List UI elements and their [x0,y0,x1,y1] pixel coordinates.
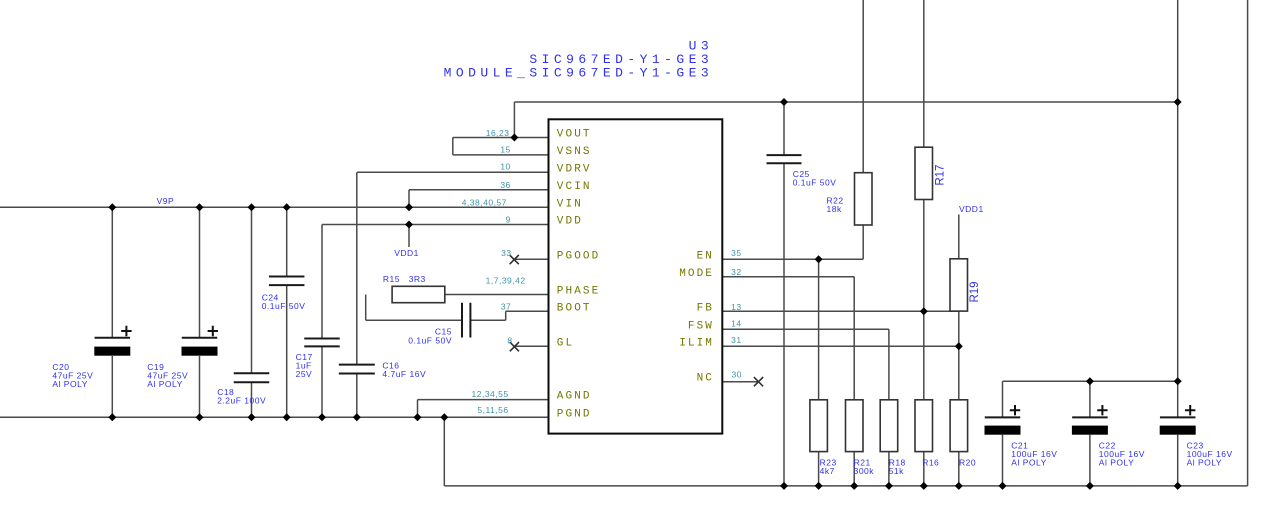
svg-text:8: 8 [507,336,512,346]
svg-text:R15: R15 [383,274,400,284]
svg-text:VDRV: VDRV [557,163,592,175]
svg-text:30: 30 [732,370,742,380]
svg-text:14: 14 [731,318,741,328]
svg-text:VDD1: VDD1 [959,204,984,214]
svg-text:VCIN: VCIN [557,181,592,193]
svg-text:FB: FB [697,302,714,314]
svg-text:300k: 300k [854,466,875,476]
svg-text:0.1uF 50V: 0.1uF 50V [262,301,306,311]
svg-text:18k: 18k [827,204,842,214]
svg-text:16,23: 16,23 [486,128,510,138]
svg-text:BOOT: BOOT [557,302,592,314]
svg-text:32: 32 [731,267,741,277]
svg-text:R20: R20 [959,458,976,468]
svg-text:4k7: 4k7 [820,466,835,476]
svg-text:13: 13 [731,302,741,312]
svg-text:GL: GL [557,337,574,349]
svg-text:NC: NC [697,372,714,384]
svg-text:R16: R16 [922,458,939,468]
svg-text:Al POLY: Al POLY [1099,457,1134,467]
svg-text:4.7uF 16V: 4.7uF 16V [382,369,426,379]
svg-text:0.1uF 50V: 0.1uF 50V [793,177,837,187]
svg-text:25V: 25V [296,369,313,379]
svg-text:12,34,55: 12,34,55 [472,389,509,399]
svg-text:PGND: PGND [557,408,592,420]
svg-text:3R3: 3R3 [409,274,426,284]
svg-text:VOUT: VOUT [557,129,592,141]
svg-text:9: 9 [506,214,511,224]
svg-text:1,7,39,42: 1,7,39,42 [486,276,526,286]
svg-text:VDD: VDD [557,216,583,228]
svg-text:EN: EN [697,250,714,262]
svg-text:Al POLY: Al POLY [1187,457,1222,467]
svg-text:51k: 51k [889,466,904,476]
svg-text:FSW: FSW [688,320,714,332]
svg-text:15: 15 [500,145,510,155]
svg-text:R19: R19 [969,281,981,302]
svg-text:V9P: V9P [157,196,175,206]
svg-text:VIN: VIN [557,198,583,210]
svg-text:2.2uF 100V: 2.2uF 100V [217,396,266,406]
svg-text:36: 36 [500,180,510,190]
svg-text:PGOOD: PGOOD [557,250,601,262]
svg-text:Al POLY: Al POLY [52,379,87,389]
svg-text:MODE: MODE [679,268,714,280]
svg-text:AGND: AGND [557,391,592,403]
svg-text:37: 37 [501,301,511,311]
svg-text:Al POLY: Al POLY [147,379,182,389]
svg-text:U3: U3 [689,38,714,53]
svg-text:PHASE: PHASE [557,286,601,298]
svg-text:35: 35 [731,248,741,258]
svg-text:0.1uF 50V: 0.1uF 50V [408,335,452,345]
svg-text:5,11,56: 5,11,56 [477,405,508,415]
svg-text:33: 33 [501,248,511,258]
svg-text:VDD1: VDD1 [394,248,419,258]
svg-text:Al POLY: Al POLY [1011,457,1046,467]
svg-text:MODULE_SIC967ED-Y1-GE3: MODULE_SIC967ED-Y1-GE3 [444,66,714,81]
svg-text:31: 31 [731,335,741,345]
svg-text:4,38,40,57: 4,38,40,57 [462,198,507,208]
svg-text:VSNS: VSNS [557,146,592,158]
svg-text:10: 10 [500,162,510,172]
svg-text:R17: R17 [935,165,947,186]
svg-text:ILIM: ILIM [679,337,714,349]
